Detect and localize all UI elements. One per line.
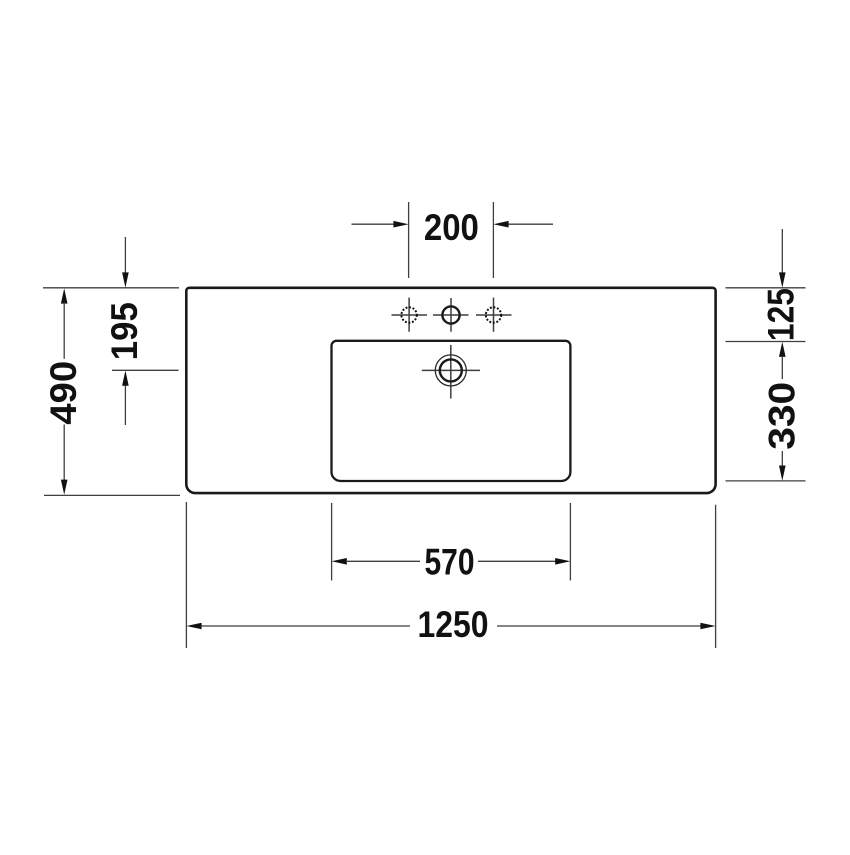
svg-text:200: 200 xyxy=(424,207,479,248)
svg-text:330: 330 xyxy=(761,382,802,450)
svg-text:490: 490 xyxy=(43,361,84,425)
svg-text:1250: 1250 xyxy=(418,604,489,645)
svg-text:195: 195 xyxy=(104,302,145,360)
svg-text:125: 125 xyxy=(761,288,802,341)
svg-text:570: 570 xyxy=(425,541,475,582)
